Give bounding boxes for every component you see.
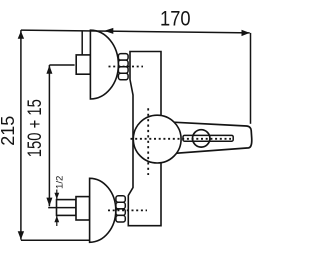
bottom wall pipe bbox=[57, 200, 77, 216]
dimension line 150+15 bbox=[48, 65, 50, 206]
top nut bbox=[118, 54, 128, 80]
arrowhead 1/2 lower bbox=[54, 216, 59, 223]
centerline body vertical bbox=[147, 108, 149, 175]
arrowhead 215 bottom bbox=[18, 231, 24, 239]
svg-text:150 + 15: 150 + 15 bbox=[24, 99, 46, 157]
lever screw circle bbox=[193, 130, 210, 147]
extension line bottom inlet center bbox=[48, 207, 76, 209]
extension line wall plane bbox=[81, 31, 83, 55]
arrowhead 170 right bbox=[242, 30, 250, 36]
faucet body bbox=[128, 52, 161, 226]
top escutcheon dome bbox=[90, 30, 118, 99]
top wall pipe bbox=[76, 55, 90, 74]
extension line bottom reference bbox=[21, 239, 89, 241]
arrowhead 1/2 upper bbox=[54, 193, 59, 200]
arrowhead 150+15 top bbox=[46, 65, 52, 74]
bottom escutcheon dome bbox=[90, 178, 116, 242]
arrowhead 150+15 bottom bbox=[46, 198, 52, 207]
bottom nut bbox=[116, 196, 125, 222]
centerline bottom inlet bbox=[108, 209, 147, 211]
extension line top inlet center bbox=[49, 64, 74, 66]
dimension line 170 top bbox=[21, 30, 250, 33]
svg-text:1/2: 1/2 bbox=[54, 176, 64, 190]
cartridge circle bbox=[133, 115, 181, 163]
lever handle bbox=[173, 122, 252, 153]
svg-text:170: 170 bbox=[160, 7, 191, 30]
bottom flange bbox=[76, 197, 90, 220]
dimension line 1/2 lower bbox=[56, 216, 58, 226]
arrowheads bbox=[18, 28, 250, 240]
dimension line 215 left bbox=[20, 30, 22, 240]
lever slot bbox=[183, 135, 233, 141]
centerline lever axis bbox=[131, 138, 232, 140]
centerlines (dotted) bbox=[108, 67, 231, 211]
centerline top inlet bbox=[109, 66, 144, 68]
dimension line 1/2 upper bbox=[56, 190, 58, 200]
dimension lines bbox=[21, 30, 251, 240]
arrowhead 215 top bbox=[18, 31, 24, 39]
extension line right (lever end) bbox=[250, 33, 252, 124]
arrowhead 170 left bbox=[104, 28, 113, 34]
svg-text:215: 215 bbox=[0, 116, 18, 146]
